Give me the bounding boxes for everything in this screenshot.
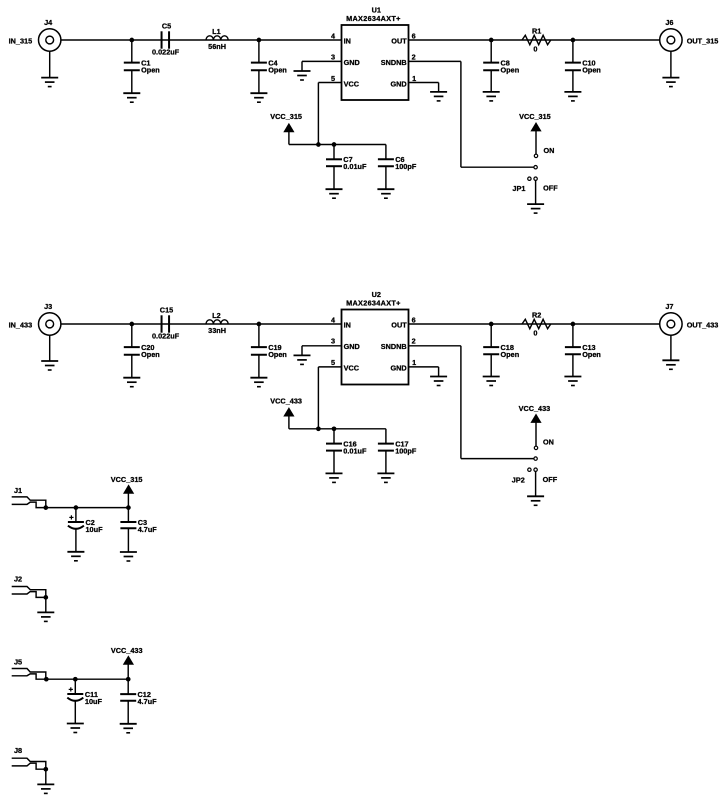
svg-text:5: 5 [331,74,335,83]
node (C18 junction) [489,322,494,327]
capacitor C16 (0.01uF) [326,429,367,483]
node (pin5-rail junction) [316,142,321,147]
svg-text:L2: L2 [212,311,221,320]
capacitor C18 (Open) [483,324,519,386]
jumper JP1 labels [512,183,558,193]
inductor L2 (33nH) [206,311,228,335]
pin ON (JP1 pin1) [534,146,554,158]
node (C20 junction) [129,322,134,327]
connector J1 (VCC_315 supply plug) [12,486,48,510]
svg-text:J4: J4 [44,18,53,27]
connector J2 (ground return plug) [12,575,48,600]
node (C10 junction) [571,38,576,43]
svg-text:R1: R1 [532,27,541,36]
wire (U2 pin1 GND) [409,367,439,377]
svg-text:VCC_433: VCC_433 [270,397,302,406]
node (C7 junction) [332,142,337,147]
svg-text:ON: ON [543,438,554,447]
node (C4 junction) [257,38,262,43]
power VCC_433 (decoupling rail) [270,397,302,417]
wire (J5 rail) [46,678,128,680]
pin 4 (U2 IN) [331,315,336,324]
resistor R2 (0 ohm) [522,311,551,338]
svg-text:100pF: 100pF [395,162,417,171]
connector J6 (OUT_315 coax jack) [660,18,719,51]
pin 6 (U2 OUT) [412,315,416,324]
svg-text:1: 1 [412,74,416,83]
pin 1 (U1 GND) [412,74,416,83]
svg-text:56nH: 56nH [208,42,226,51]
wire (U1 pin3 GND) [302,61,342,71]
svg-text:JP1: JP1 [512,184,525,193]
svg-text:100pF: 100pF [395,447,417,456]
resistor R1 (0 ohm) [522,27,551,54]
wire (U1 pin1 GND) [409,83,439,92]
svg-text:J6: J6 [665,18,673,27]
capacitor C6 (100pF) [377,145,416,199]
wire (U1 SNDNB to JP1) [409,61,534,167]
capacitor C10 (Open) [564,40,600,101]
power VCC_433 (supply input) [111,646,143,664]
svg-text:OFF: OFF [543,475,558,484]
capacitor C1 (Open) [123,40,159,102]
ground (JP2) [527,496,544,505]
svg-text:Open: Open [501,350,520,359]
wire (J1 rail) [46,507,129,509]
ground (J4) [41,51,58,86]
IC U1 MAX2634AXT+ [342,6,409,100]
wire (U2 pin5 VCC) [318,367,341,429]
svg-text:MAX2634AXT+: MAX2634AXT+ [346,14,401,23]
svg-text:3: 3 [331,337,335,346]
svg-text:Open: Open [268,350,287,359]
svg-text:6: 6 [412,315,416,324]
capacitor C20 (Open) [123,324,159,387]
svg-text:GND: GND [344,342,360,351]
svg-text:VCC: VCC [344,363,360,372]
pin ON (JP2 pin1) [534,438,554,450]
inductor L1 (56nH) [206,27,228,51]
capacitor C11 (10uF polarized) [67,679,103,732]
svg-text:C5: C5 [162,22,171,31]
wire (J3 to U2 IN) [61,323,342,325]
capacitor C19 (Open) [250,324,286,387]
svg-text:Open: Open [141,66,160,75]
IC U2 MAX2634AXT+ [342,290,409,385]
wire (J4 to U1 IN) [61,39,342,41]
svg-text:0.022uF: 0.022uF [152,48,180,57]
wire (VCC to JP1 ON pin) [535,131,537,154]
pin OFF pair (JP2 pin3) [528,468,538,471]
pin 6 (U1 OUT) [412,31,416,40]
capacitor C15 (0.022uF series) [152,306,180,341]
svg-text:Open: Open [582,66,601,75]
svg-text:IN: IN [344,37,351,46]
wire (U1 OUT to J6) [409,39,660,41]
svg-text:2: 2 [412,53,416,62]
ground (U2 pin3) [294,355,311,364]
svg-text:SNDNB: SNDNB [381,58,407,67]
svg-text:6: 6 [412,31,416,40]
ground (JP1) [527,204,544,213]
node (C1 junction) [129,38,134,43]
svg-text:5: 5 [331,358,335,367]
svg-text:GND: GND [390,79,406,88]
pin 2 (U2 SNDNB) [412,337,416,346]
wire (U2 pin3 GND) [302,346,342,356]
svg-text:VCC_315: VCC_315 [519,112,551,121]
ground (U1 pin1) [430,92,447,101]
ground (U1 pin3) [294,71,311,80]
node (C3 junction) [126,505,131,510]
svg-text:33nH: 33nH [208,326,226,335]
connector J5 (VCC_433 supply plug) [12,658,49,682]
connector J7 (OUT_433 coax jack) [660,302,719,335]
svg-text:OUT: OUT [391,37,407,46]
capacitor C4 (Open) [250,40,286,102]
capacitor C2 (10uF polarized) [67,508,103,561]
svg-text:J2: J2 [14,575,22,584]
svg-text:J8: J8 [14,746,22,755]
svg-text:3: 3 [331,53,335,62]
node (C13 junction) [571,322,576,327]
wire (U2 SNDNB to JP2) [409,346,534,459]
svg-text:VCC_433: VCC_433 [111,646,143,655]
svg-text:IN: IN [344,321,351,330]
svg-text:VCC_433: VCC_433 [519,404,551,413]
power VCC_315 (JP1 pull-up) [519,112,551,131]
node (C12 junction) [126,677,131,682]
svg-text:VCC_315: VCC_315 [111,475,143,484]
capacitor C13 (Open) [564,324,600,386]
pin 4 (U1 IN) [331,31,336,40]
svg-text:10uF: 10uF [86,525,104,534]
svg-text:C15: C15 [160,306,173,315]
connector J3 (IN_433 coax jack) [9,302,61,335]
svg-text:Open: Open [268,66,287,75]
svg-text:4.7uF: 4.7uF [138,697,158,706]
svg-text:J3: J3 [44,302,52,311]
svg-text:VCC: VCC [344,79,360,88]
svg-text:Open: Open [582,350,601,359]
svg-text:MAX2634AXT+: MAX2634AXT+ [346,299,401,308]
svg-text:R2: R2 [532,311,541,320]
ground (J6) [662,51,679,86]
node (pin5-rail junction U2) [316,426,321,431]
wire (U1 pin5 VCC) [318,83,341,145]
svg-text:J5: J5 [14,658,22,667]
svg-text:Open: Open [501,66,520,75]
pin OFF pair (JP1 pin3) [528,177,538,180]
wire (VCC_315 stem) [127,493,129,507]
svg-text:0: 0 [533,329,537,338]
power VCC_315 (decoupling rail) [270,112,302,132]
ground (U2 pin1) [430,377,447,386]
wire (U2 OUT to J7) [409,323,660,325]
svg-text:J7: J7 [665,302,673,311]
svg-text:1: 1 [412,358,416,367]
svg-text:ON: ON [544,146,555,155]
power VCC_433 (JP2 pull-up) [519,404,551,423]
svg-text:IN_315: IN_315 [9,37,33,46]
pin 2 (U1 SNDNB) [412,53,416,62]
svg-text:0.01uF: 0.01uF [343,447,367,456]
capacitor C3 (4.7uF) [120,508,157,561]
ground (J8) [37,784,54,793]
capacitor C7 (0.01uF) [326,145,367,199]
connector J8 (ground return plug) [12,746,48,771]
svg-text:10uF: 10uF [85,697,103,706]
svg-text:OUT_433: OUT_433 [687,321,719,330]
pin 5 (U2 VCC) [331,358,335,367]
svg-text:4.7uF: 4.7uF [138,525,158,534]
wire (VCC_433 stem) [127,664,129,679]
wire (JP2 OFF to ground) [535,471,537,496]
pin center (JP1 pin2) [534,166,537,169]
capacitor C17 (100pF) [377,429,416,483]
node (C16 junction) [332,426,337,431]
connector J4 (IN_315 coax jack) [9,18,61,51]
node (C11 junction) [73,677,78,682]
jumper JP2 labels [512,475,558,485]
pin 5 (U1 VCC) [331,74,335,83]
svg-text:0.01uF: 0.01uF [343,162,367,171]
wire (VCC_433 rail) [289,416,386,429]
svg-text:GND: GND [390,363,406,372]
svg-text:0: 0 [533,45,537,54]
pin 3 (U1 GND) [331,53,335,62]
capacitor C8 (Open) [483,40,519,101]
svg-text:Open: Open [141,350,160,359]
svg-text:0.022uF: 0.022uF [152,332,180,341]
capacitor C5 (0.022uF series) [152,22,180,57]
svg-text:L1: L1 [212,27,221,36]
svg-text:JP2: JP2 [512,476,525,485]
wire (JP1 OFF to ground) [535,180,537,204]
power VCC_315 (supply input) [111,475,143,493]
svg-text:GND: GND [344,58,360,67]
ground (J3) [41,335,58,370]
capacitor C12 (4.7uF) [120,679,157,733]
ground (J2) [37,612,54,621]
svg-text:VCC_315: VCC_315 [270,112,302,121]
svg-text:J1: J1 [14,486,22,495]
svg-text:OFF: OFF [543,183,558,192]
pin 1 (U2 GND) [412,358,416,367]
wire (VCC to JP2 ON pin) [535,423,537,447]
node (C2 junction) [74,505,79,510]
wire (VCC_315 rail) [289,132,386,145]
svg-text:IN_433: IN_433 [9,321,33,330]
svg-text:OUT_315: OUT_315 [687,37,719,46]
node (C8 junction) [489,38,494,43]
ground (J7) [662,335,679,369]
pin 3 (U2 GND) [331,337,335,346]
node (C19 junction) [257,322,262,327]
wire (J8 to ground) [45,769,47,784]
svg-text:2: 2 [412,337,416,346]
pin center (JP2 pin2) [534,457,537,460]
svg-text:OUT: OUT [391,321,407,330]
svg-text:SNDNB: SNDNB [381,342,407,351]
wire (J2 to ground) [45,597,47,612]
